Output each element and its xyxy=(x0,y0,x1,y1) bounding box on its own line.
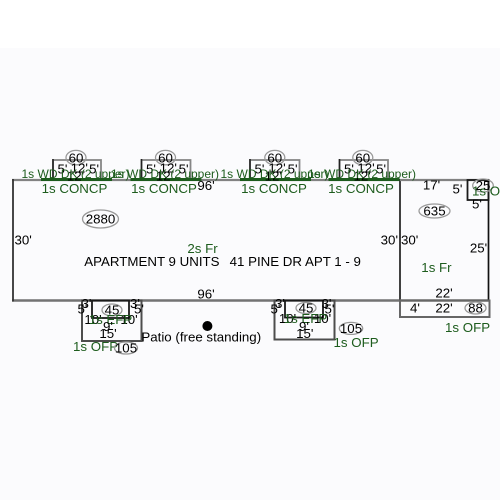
svg-text:96': 96' xyxy=(197,178,214,193)
svg-text:1s Fr: 1s Fr xyxy=(421,260,452,275)
svg-text:APARTMENT 9 UNITS: APARTMENT 9 UNITS xyxy=(84,254,219,269)
svg-text:17': 17' xyxy=(423,178,440,193)
svg-text:41 PINE DR APT 1 - 9: 41 PINE DR APT 1 - 9 xyxy=(230,254,361,269)
svg-text:105: 105 xyxy=(115,341,137,356)
area ellipse 45 left xyxy=(102,304,122,316)
svg-text:1s OFP: 1s OFP xyxy=(73,339,118,354)
area ellipse 60 deck2 xyxy=(156,150,176,164)
deck D3 outline xyxy=(250,160,300,180)
area ellipse 60 deck3 xyxy=(265,150,285,164)
concrete patio CONCP green segment 2 xyxy=(131,178,202,181)
concrete patio CONCP green segment 1 xyxy=(41,178,112,181)
svg-text:1s OFP: 1s OFP xyxy=(445,320,490,335)
main building left wall xyxy=(12,179,14,302)
svg-text:30': 30' xyxy=(401,233,418,248)
area ellipse 45 right xyxy=(296,303,316,314)
deck D4 outline xyxy=(340,160,389,180)
concrete patio CONCP green segment 4 xyxy=(329,178,400,181)
svg-text:5': 5' xyxy=(472,197,482,212)
area ellipse 105 left xyxy=(115,342,138,354)
svg-text:1s OFP: 1s OFP xyxy=(334,335,379,350)
svg-text:1s CONCP: 1s CONCP xyxy=(241,181,307,196)
svg-text:15': 15' xyxy=(296,326,313,341)
svg-text:25': 25' xyxy=(470,241,487,256)
svg-text:105: 105 xyxy=(340,321,362,336)
svg-text:88: 88 xyxy=(468,301,483,316)
svg-text:Patio (free standing): Patio (free standing) xyxy=(141,330,261,345)
main building bottom wall xyxy=(12,299,400,302)
deck D2 left edge xyxy=(141,159,143,180)
1s OFP 5x5 notch square (top-right) xyxy=(468,180,489,200)
area ellipse 60 deck1 xyxy=(66,150,86,164)
bottom-right porch outer rect (1s OFP 15x10) xyxy=(275,301,335,340)
svg-text:30': 30' xyxy=(381,233,398,248)
bottom-left porch outer rect (1s OFP 15x10) xyxy=(82,301,142,342)
area ellipse 2880 xyxy=(83,210,119,228)
svg-text:1s CONCP: 1s CONCP xyxy=(42,181,108,196)
patio dot (free standing) xyxy=(202,321,212,331)
area ellipse 60 deck4 xyxy=(353,150,373,164)
area ellipse 105 right xyxy=(339,322,362,334)
area ellipse 635 xyxy=(419,204,450,218)
deck D3 left edge xyxy=(249,159,251,180)
svg-text:2880: 2880 xyxy=(86,212,116,227)
svg-text:5': 5' xyxy=(453,182,463,197)
1s Fr bottom wall xyxy=(400,299,489,302)
svg-text:22': 22' xyxy=(435,286,452,301)
svg-text:1s CONCP: 1s CONCP xyxy=(131,181,197,196)
1s OFP 22x4 rect (below 1s Fr) xyxy=(400,301,490,318)
main building top wall xyxy=(12,179,400,181)
svg-text:22': 22' xyxy=(435,301,452,316)
concrete patio CONCP green segment 3 xyxy=(240,178,311,181)
svg-text:4': 4' xyxy=(410,301,420,316)
deck D1 outline xyxy=(53,160,101,180)
svg-text:635: 635 xyxy=(423,204,445,219)
svg-text:1s CONCP: 1s CONCP xyxy=(328,181,394,196)
1s Fr top wall xyxy=(400,179,489,181)
deck D4 left edge xyxy=(339,159,341,180)
svg-text:30': 30' xyxy=(15,233,32,248)
1s Fr right wall xyxy=(488,179,490,301)
svg-text:96': 96' xyxy=(197,287,214,302)
deck D2 outline xyxy=(142,160,191,180)
deck D1 left edge xyxy=(52,159,54,180)
area ellipse 25 xyxy=(473,179,494,192)
bottom-right porch inner rect (1s EFP 9x5) xyxy=(285,301,323,318)
bottom-left porch inner rect (1s EFP 9x5) xyxy=(92,301,129,319)
main building right wall xyxy=(399,179,401,302)
svg-text:1s WD DK (2 upper): 1s WD DK (2 upper) xyxy=(308,167,416,181)
area ellipse 88 xyxy=(465,302,486,314)
